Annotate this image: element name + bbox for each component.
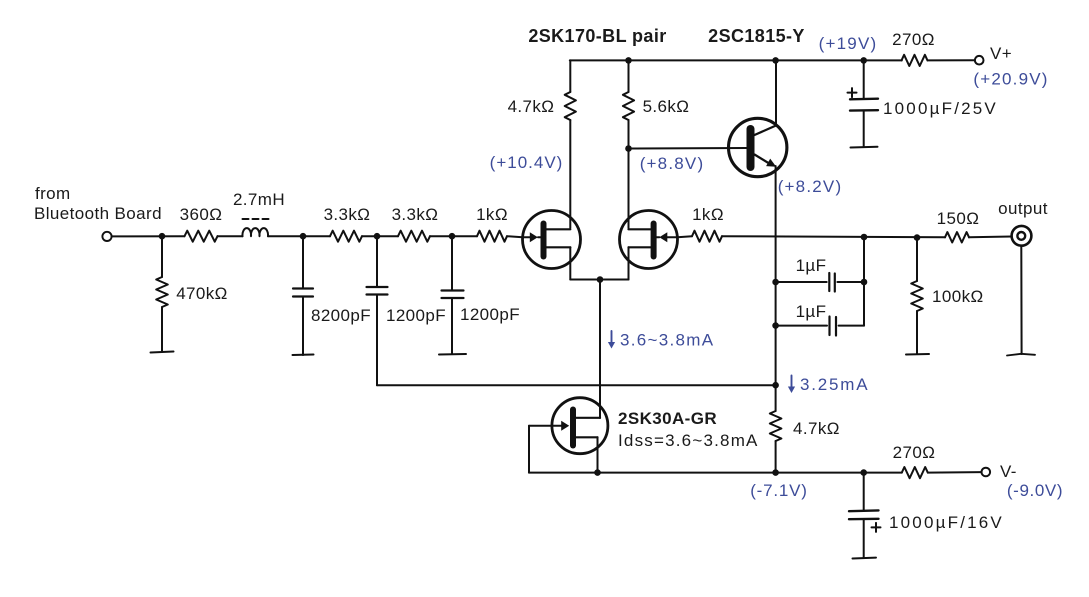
- svg-text:1000µF/16V: 1000µF/16V: [889, 513, 1004, 532]
- svg-text:1µF: 1µF: [796, 302, 827, 321]
- svg-text:from: from: [35, 184, 71, 203]
- svg-text:output: output: [998, 199, 1048, 218]
- svg-text:1200pF: 1200pF: [460, 305, 520, 324]
- svg-text:1kΩ: 1kΩ: [476, 205, 508, 224]
- svg-text:1kΩ: 1kΩ: [692, 205, 724, 224]
- svg-text:4.7kΩ: 4.7kΩ: [508, 97, 555, 116]
- svg-text:1000µF/25V: 1000µF/25V: [883, 99, 998, 118]
- svg-text:1µF: 1µF: [796, 256, 827, 275]
- svg-text:2SK30A-GR: 2SK30A-GR: [618, 409, 717, 428]
- svg-text:Idss=3.6~3.8mA: Idss=3.6~3.8mA: [618, 431, 759, 450]
- svg-text:(-7.1V): (-7.1V): [750, 481, 808, 500]
- svg-text:360Ω: 360Ω: [180, 205, 223, 224]
- svg-text:V-: V-: [1000, 462, 1017, 481]
- svg-text:150Ω: 150Ω: [937, 209, 980, 228]
- svg-text:3.25mA: 3.25mA: [800, 375, 869, 394]
- svg-text:(-9.0V): (-9.0V): [1007, 481, 1063, 500]
- svg-text:470kΩ: 470kΩ: [176, 284, 228, 303]
- svg-text:3.3kΩ: 3.3kΩ: [324, 205, 371, 224]
- svg-text:3.6~3.8mA: 3.6~3.8mA: [620, 331, 714, 350]
- svg-text:3.3kΩ: 3.3kΩ: [392, 205, 439, 224]
- svg-text:270Ω: 270Ω: [892, 30, 935, 49]
- svg-text:(+8.8V): (+8.8V): [640, 154, 705, 173]
- svg-text:8200pF: 8200pF: [311, 306, 371, 325]
- svg-text:Bluetooth Board: Bluetooth Board: [34, 204, 162, 223]
- svg-text:(+19V): (+19V): [819, 34, 878, 53]
- svg-text:1200pF: 1200pF: [386, 306, 446, 325]
- svg-text:2.7mH: 2.7mH: [233, 190, 285, 209]
- svg-text:270Ω: 270Ω: [893, 443, 936, 462]
- svg-text:(+20.9V): (+20.9V): [973, 70, 1048, 89]
- svg-text:4.7kΩ: 4.7kΩ: [793, 419, 840, 438]
- svg-text:5.6kΩ: 5.6kΩ: [643, 97, 690, 116]
- svg-text:(+8.2V): (+8.2V): [778, 177, 843, 196]
- svg-text:2SK170-BL pair: 2SK170-BL pair: [528, 26, 666, 46]
- svg-text:100kΩ: 100kΩ: [932, 287, 984, 306]
- svg-text:V+: V+: [990, 44, 1012, 63]
- svg-text:(+10.4V): (+10.4V): [490, 153, 564, 172]
- svg-text:2SC1815-Y: 2SC1815-Y: [708, 26, 805, 46]
